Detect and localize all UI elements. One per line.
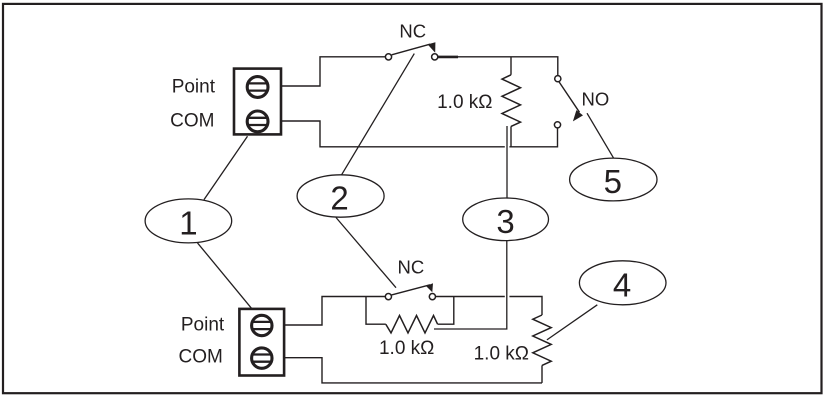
node 5 ellipse bbox=[570, 158, 657, 201]
resistor 1.0k (bottom, horizontal, parallel to NC) bbox=[366, 297, 454, 333]
callout line 4 ellipse 4 to EOL resistor bbox=[547, 305, 597, 340]
node 3 ellipse bbox=[463, 198, 549, 241]
switch NC (top) bbox=[385, 42, 437, 60]
wire thick stub after NC contact bbox=[438, 56, 458, 59]
svg-text:COM: COM bbox=[178, 346, 222, 367]
callout line 2a NC top to ellipse 2 bbox=[342, 54, 415, 175]
svg-text:NC: NC bbox=[398, 257, 425, 278]
resistor 1.0k (bottom, vertical, EOL) bbox=[533, 315, 551, 383]
resistor 1.0k (top, vertical) bbox=[502, 57, 521, 147]
wire TB2 Point to NC switch bbox=[284, 297, 385, 326]
wire top rail NC to NO and resistor top bbox=[438, 57, 558, 76]
screw terminal TB1 Point bbox=[247, 77, 268, 98]
svg-text:COM: COM bbox=[170, 111, 214, 132]
callout line 3a resistor top to ellipse 3 bbox=[506, 126, 508, 198]
terminal block TB2 (bottom) bbox=[239, 309, 284, 376]
screw terminal TB2 Point bbox=[252, 315, 272, 335]
svg-text:4: 4 bbox=[613, 266, 631, 303]
svg-text:Point: Point bbox=[181, 315, 225, 336]
screw terminal TB2 COM bbox=[252, 348, 272, 368]
wire TB1 COM to bottom rail bbox=[281, 121, 558, 147]
svg-text:1.0 kΩ: 1.0 kΩ bbox=[379, 338, 434, 359]
node 4 ellipse bbox=[579, 261, 666, 305]
svg-text:3: 3 bbox=[496, 203, 514, 240]
svg-text:2: 2 bbox=[330, 180, 348, 217]
svg-text:5: 5 bbox=[604, 163, 622, 200]
wire bottom top-rail NC to resistor 4 bbox=[436, 297, 543, 316]
callout line 5 NO to ellipse 5 bbox=[587, 113, 614, 158]
node 1 ellipse bbox=[145, 199, 232, 243]
svg-text:1.0 kΩ: 1.0 kΩ bbox=[474, 344, 529, 365]
screw terminal TB1 COM bbox=[247, 111, 268, 132]
svg-text:1.0 kΩ: 1.0 kΩ bbox=[437, 92, 492, 113]
svg-text:1: 1 bbox=[179, 204, 197, 241]
callout line 2b ellipse 2 to NC bottom bbox=[336, 218, 396, 288]
wire TB2 COM to bottom rail bbox=[284, 358, 542, 383]
terminal block TB1 (top) bbox=[234, 69, 281, 135]
wire gap where line 3 crosses rails bbox=[505, 145, 510, 148]
wire TB1 Point to NC switch bbox=[281, 57, 385, 86]
switch NO bbox=[554, 76, 583, 128]
svg-text:NO: NO bbox=[582, 89, 610, 110]
node 2 ellipse bbox=[297, 175, 384, 217]
svg-text:NC: NC bbox=[399, 21, 426, 42]
callout line 3b ellipse 3 to bottom resistor bbox=[434, 241, 507, 329]
switch NC (bottom) bbox=[385, 283, 435, 300]
svg-text:Point: Point bbox=[172, 77, 216, 98]
callout line 1b ellipse 1 to TB2 bbox=[198, 243, 253, 309]
callout line 1a TB1 to ellipse 1 bbox=[204, 136, 248, 199]
